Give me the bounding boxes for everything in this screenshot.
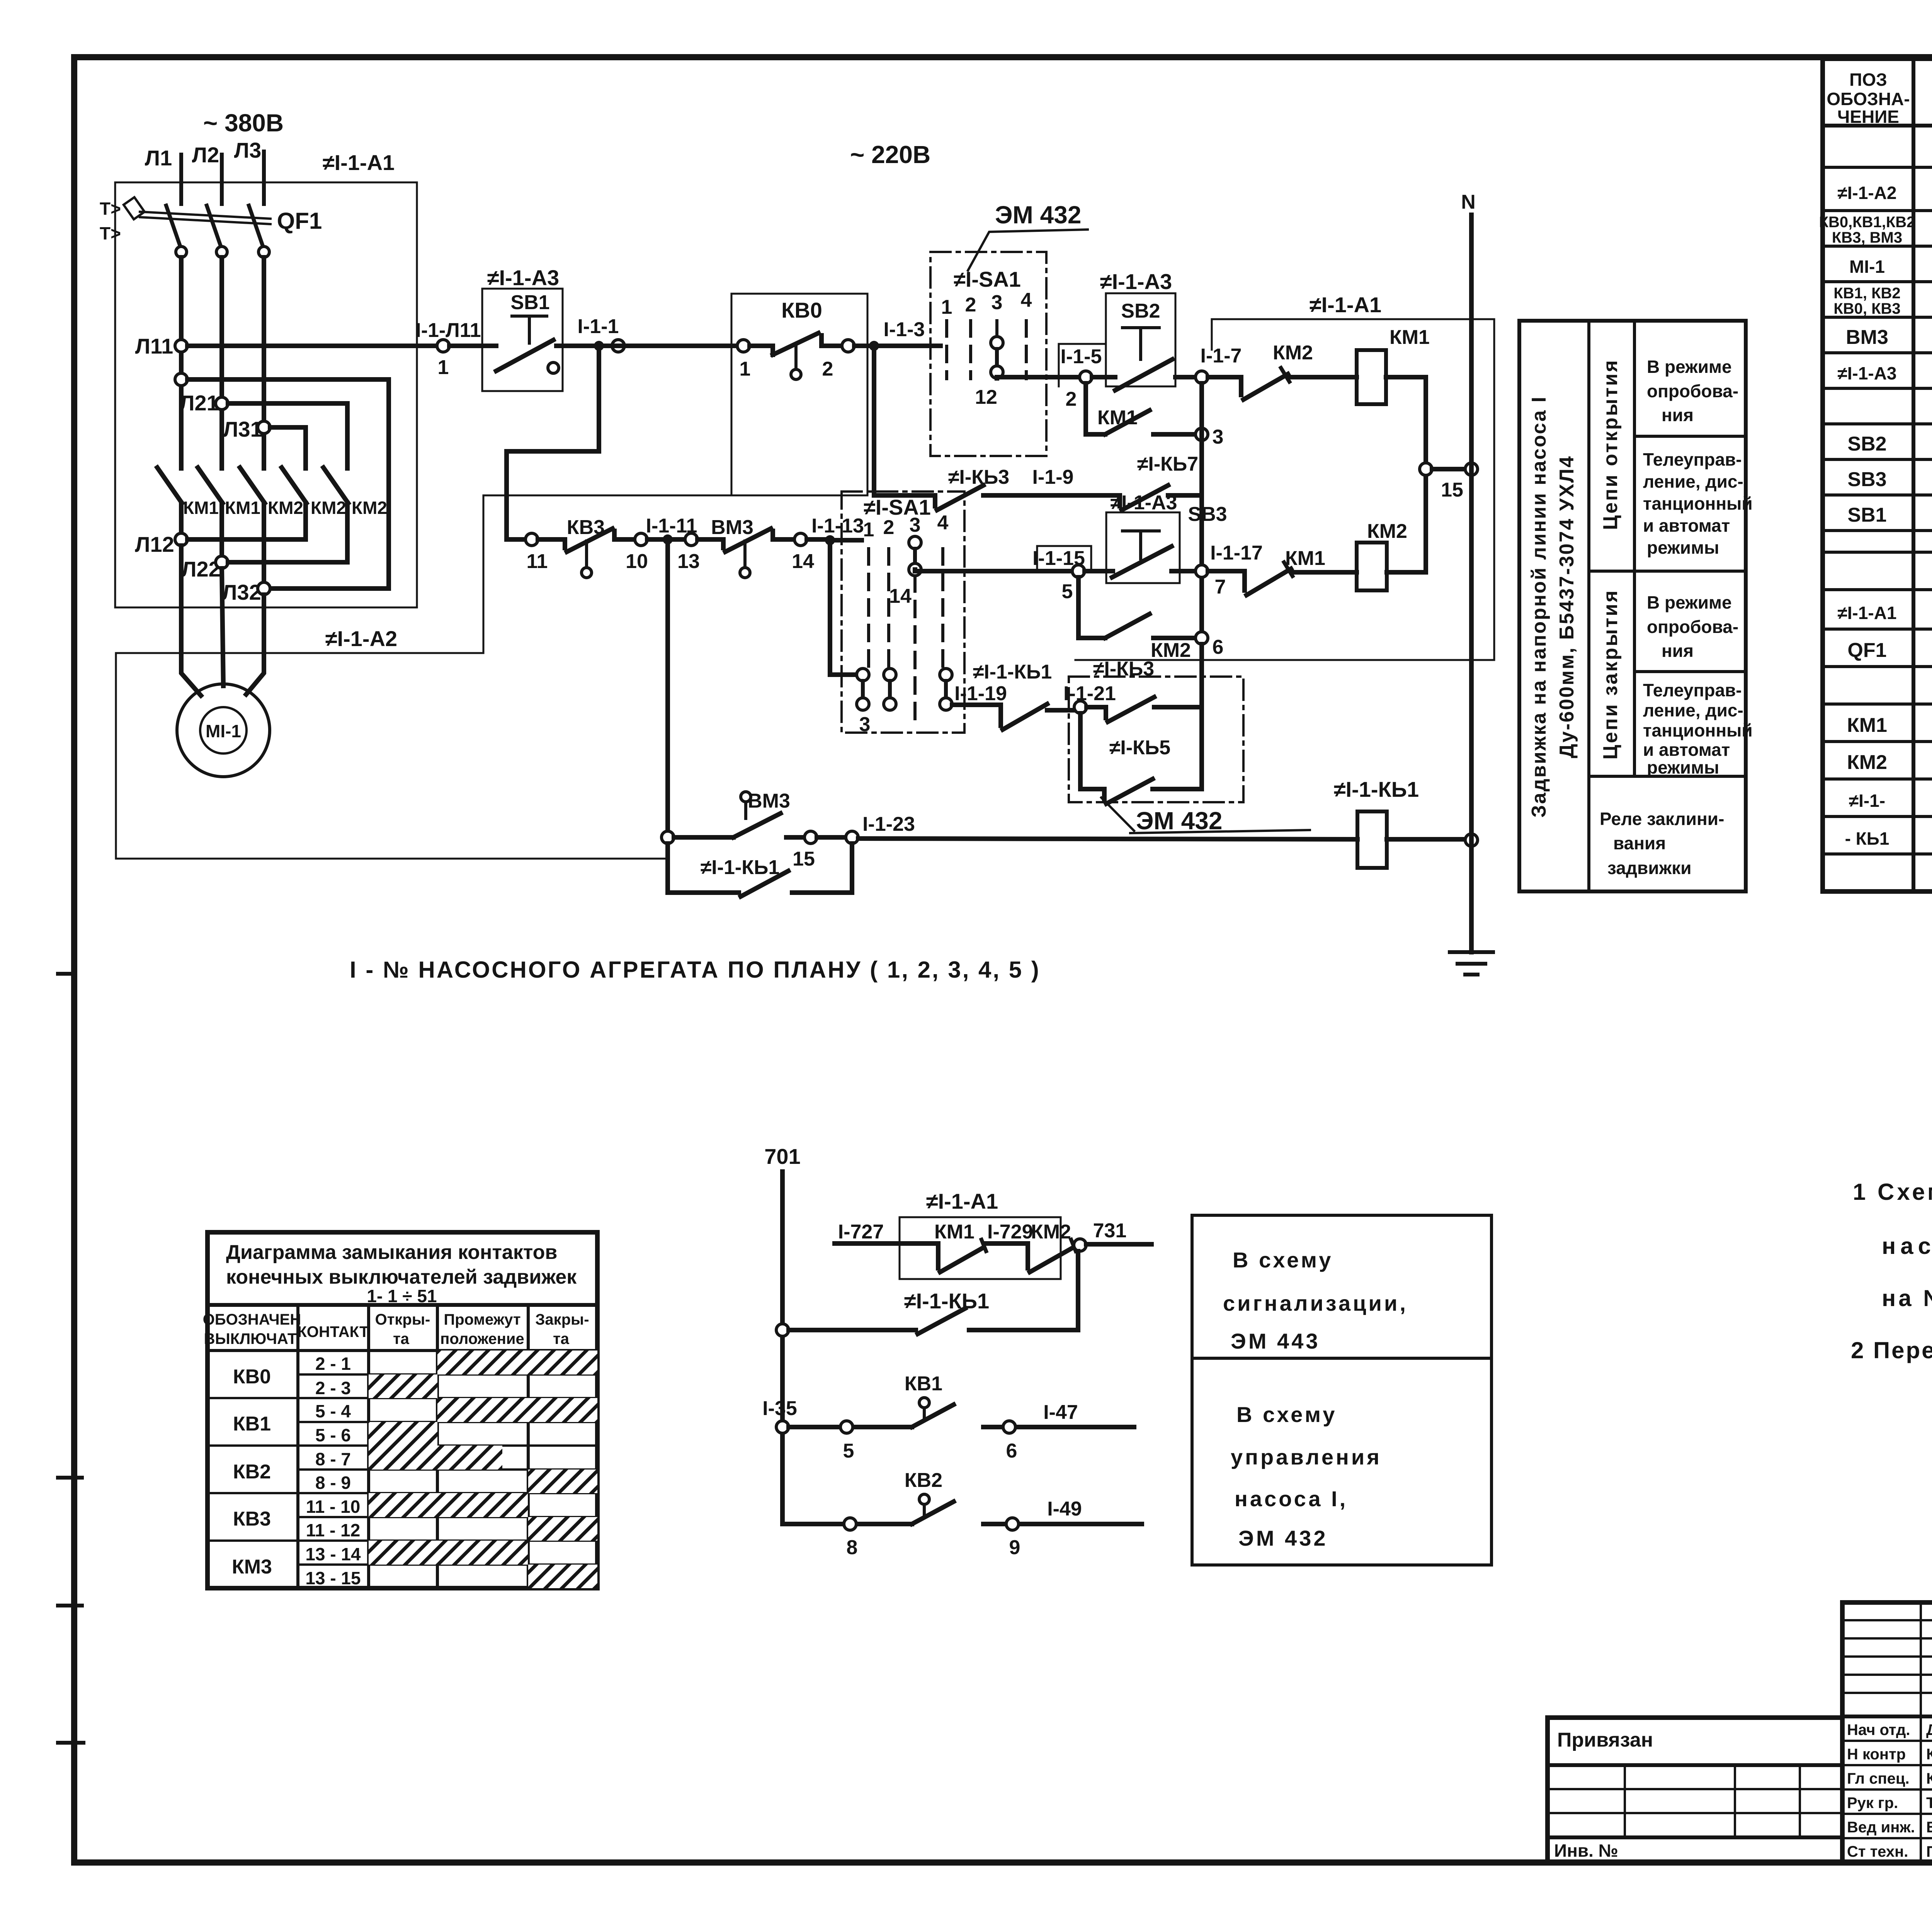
wire I-1-23 [858,839,1357,839]
wire branch down to KV3 row [507,346,599,539]
contact K47 row [1120,485,1202,510]
svg-text:КВ3: КВ3 [233,1508,271,1530]
svg-text:КМ1: КМ1 [934,1221,975,1243]
parts row tech description [1819,214,1932,246]
svg-text:5: 5 [843,1440,854,1462]
svg-text:КОНТАКТ: КОНТАКТ [297,1323,369,1340]
svg-text:Долотов: Долотов [1926,1721,1932,1738]
svg-text:I-727: I-727 [838,1221,884,1243]
contact KM2 aux NO [1105,614,1196,662]
svg-text:танционный: танционный [1643,720,1753,740]
svg-text:≠I-1-КЬ1: ≠I-1-КЬ1 [904,1289,989,1313]
svg-text:14: 14 [792,550,814,573]
jumper SA1 lower pos3 top [909,536,921,576]
wire SB2 to I-1-7 [1175,375,1196,379]
block box KV0 [731,294,867,495]
svg-text:≠I-1-А3: ≠I-1-А3 [1837,363,1896,383]
svg-text:I-1-7: I-1-7 [1201,345,1242,367]
svg-text:Инв. №: Инв. № [1554,1840,1618,1861]
svg-text:6: 6 [1006,1440,1017,1462]
svg-text:731: 731 [1093,1220,1127,1242]
coil KM1 [1357,326,1430,404]
svg-text:12: 12 [975,386,997,408]
svg-text:танционный: танционный [1643,493,1753,514]
svg-text:≠I-1-А2: ≠I-1-А2 [1837,183,1896,203]
parts row KM2 [1847,749,1932,774]
wire L21 to contact5 [228,403,347,468]
wire coil K41 to N [1387,837,1465,842]
svg-text:I - № НАСОСНОГО АГРЕГАТА: I - № НАСОСНОГО АГРЕГАТА ПО ПЛАНУ ( 1, 2… [350,957,1041,983]
wire row C start [915,570,1072,571]
wire row E start [952,703,1001,707]
svg-text:Полякова: Полякова [1926,1843,1932,1860]
svg-text:ВЫКЛЮЧАТ: ВЫКЛЮЧАТ [204,1330,297,1347]
svg-text:Л12: Л12 [135,532,174,556]
svg-text:Рук гр.: Рук гр. [1847,1795,1898,1812]
svg-text:ЭМ 432: ЭМ 432 [1238,1526,1328,1550]
svg-text:КВ3, ВМ3: КВ3, ВМ3 [1832,229,1902,246]
svg-text:КМ1: КМ1 [225,498,260,518]
svg-text:I-1-19: I-1-19 [954,682,1007,705]
diagram hatch row 8-9 [528,1470,597,1493]
svg-text:В режиме: В режиме [1647,592,1732,612]
svg-text:≠I-SA1: ≠I-SA1 [864,495,931,519]
diagram hatch row 13-14 [369,1541,528,1565]
svg-text:2: 2 [965,294,976,316]
svg-text:1: 1 [438,356,449,379]
parts row SB3 [1847,466,1932,491]
switch KV1 row [789,1398,1134,1427]
block box A1 power [115,182,417,607]
svg-text:13 - 15: 13 - 15 [305,1568,361,1588]
wire motor lead 2 [222,568,223,686]
node 11 [526,533,538,546]
svg-text:Кудряшов: Кудряшов [1926,1770,1932,1787]
node 8 [844,1518,856,1530]
svg-text:≠I-1-А3: ≠I-1-А3 [1100,269,1172,294]
contact K43 row E [1087,697,1202,722]
svg-text:QF1: QF1 [1847,639,1886,662]
contactor contact KM2 pole3 [240,468,303,518]
svg-text:ОБОЗНА-: ОБОЗНА- [1827,89,1910,109]
svg-text:Т>: Т> [100,223,121,243]
svg-text:701: 701 [764,1144,800,1169]
wire node3 column [1199,383,1204,638]
svg-text:3: 3 [992,291,1003,314]
sidebar cell test mode 2 [1647,592,1738,661]
label frame I-1-5 [1059,344,1106,386]
node 15 bypass [804,831,817,844]
parts row limit switches [1833,285,1932,317]
sidebar cell remote mode 2 [1643,680,1753,777]
svg-text:Л2: Л2 [192,143,219,167]
diagram table headers [203,1311,589,1347]
node on N [1465,834,1478,846]
node 1 terminal [437,340,449,352]
switch KV2 row [782,1494,1142,1524]
svg-text:КВ0: КВ0 [233,1366,271,1388]
svg-text:Ду-600мм, Б5437-3074 УХЛ4: Ду-600мм, Б5437-3074 УХЛ4 [1556,455,1578,758]
limit switch KV3 [538,529,635,578]
svg-text:В схему: В схему [1233,1248,1333,1272]
wire row A to SB1 [449,344,496,348]
switch VM3 [697,529,794,578]
contactor contact KM1 pole1 [157,468,219,518]
svg-text:8 - 7: 8 - 7 [315,1449,351,1469]
svg-text:Телеуправ-: Телеуправ- [1643,449,1742,469]
svg-text:I-47: I-47 [1043,1401,1078,1424]
svg-text:КВ2: КВ2 [905,1469,942,1492]
wire phase column 2 [219,257,224,468]
svg-text:≠I-1-КЬ1: ≠I-1-КЬ1 [701,856,780,879]
svg-text:на № соответствующего насос: на № соответствующего насоса ( 1, 2, 3, … [1882,1285,1932,1311]
parts row KM1 [1847,712,1932,737]
svg-text:КМ2: КМ2 [352,498,387,518]
motor M I-1 [177,684,270,777]
wire L2 input stub [220,155,224,204]
svg-text:Цепи открытия: Цепи открытия [1599,359,1622,530]
sidebar cell test mode 1 [1647,357,1738,425]
sidebar table grid [1519,321,1746,891]
svg-text:5 - 6: 5 - 6 [315,1425,351,1445]
node I-35 [776,1421,789,1433]
node 2 [1080,371,1092,383]
svg-text:положение: положение [440,1330,524,1347]
svg-text:2: 2 [1066,388,1077,410]
svg-text:I-1-23: I-1-23 [862,813,915,835]
svg-text:≠I-1-А1: ≠I-1-А1 [926,1189,998,1213]
svg-text:КМ1: КМ1 [1847,714,1887,737]
svg-text:Задвижка на напорной линии нас: Задвижка на напорной линии насоса I [1528,396,1550,818]
svg-text:8 - 9: 8 - 9 [315,1473,351,1493]
parts row relay [1849,787,1932,811]
svg-text:Л21: Л21 [179,391,219,415]
contact KM2 bottom [1028,1221,1076,1272]
svg-text:I-1-Л11: I-1-Л11 [415,319,481,342]
parts row control post [1837,360,1932,384]
block outline A2 [116,495,731,859]
svg-text:Диаграмма замыкания контакто: Диаграмма замыкания контактов [226,1241,557,1264]
svg-text:2 Перечень элементов выполн: 2 Перечень элементов выполнен на одну за… [1851,1337,1932,1363]
svg-text:та: та [393,1330,410,1347]
svg-text:опробова-: опробова- [1647,381,1738,401]
svg-text:5: 5 [1062,580,1073,603]
svg-text:≠I-1-А3: ≠I-1-А3 [487,265,559,290]
svg-text:КВ1: КВ1 [233,1413,271,1435]
svg-text:ление, дис-: ление, дис- [1643,700,1743,720]
wire elbow to SA1 lower [830,540,857,675]
svg-text:I-729: I-729 [987,1221,1033,1243]
svg-text:вания: вания [1613,833,1666,853]
block outline A1 control [1075,319,1494,660]
svg-text:≠I-КЬ5: ≠I-КЬ5 [1109,737,1170,759]
contact KL1 row E [1001,704,1074,730]
diagram hatch row 2-1 [437,1351,597,1374]
svg-text:11 - 12: 11 - 12 [306,1520,361,1540]
svg-text:I-1-17: I-1-17 [1210,542,1263,564]
svg-text:≠I-SA1: ≠I-SA1 [954,267,1021,291]
svg-text:SB1: SB1 [1847,504,1886,526]
wire node14 to I-1-13 [807,537,830,542]
svg-text:I-1-5: I-1-5 [1061,345,1102,368]
wire phase1 bypass [187,379,389,589]
diagram table grid [207,1232,597,1588]
svg-text:- КЬ1: - КЬ1 [1845,828,1889,849]
svg-text:и автомат: и автомат [1643,515,1730,536]
svg-text:Ст техн.: Ст техн. [1847,1843,1908,1860]
diagram hatch row 5-6 [369,1422,437,1446]
label frame I-1-15 [1037,546,1091,571]
node 6 bottom [1003,1421,1015,1433]
svg-text:2 - 3: 2 - 3 [315,1378,351,1398]
svg-text:≠I-КЬ3: ≠I-КЬ3 [948,466,1009,488]
wire KM1 coil return [1386,377,1426,463]
circuit breaker QF1 [100,197,322,257]
wire phase column 1 [179,257,184,468]
pushbutton SB3 [1085,512,1200,583]
svg-text:1 Схема выполнена для напо: 1 Схема выполнена для напорных задвижек [1853,1179,1932,1205]
sidebar rotated title valve [1528,396,1578,818]
svg-text:≠I-1-А1: ≠I-1-А1 [1837,603,1896,623]
svg-text:Кудряшов: Кудряшов [1926,1746,1932,1763]
contact K41 bypass loop [668,844,852,896]
wire row A SB1 to KB0 [563,344,737,348]
pin circle VM3 bypass [741,792,751,818]
svg-text:КМ1: КМ1 [1389,326,1430,349]
parts row SB2 [1847,431,1932,455]
svg-text:1: 1 [863,519,874,541]
svg-text:1: 1 [740,358,751,380]
svg-text:~ 380В: ~ 380В [203,109,284,137]
ground [1450,952,1493,975]
svg-text:В схему: В схему [1236,1402,1337,1427]
svg-text:Закры-: Закры- [535,1311,589,1328]
svg-text:SB2: SB2 [1847,433,1886,455]
wire KM1 aux branch [1086,383,1105,434]
node 14 [794,533,807,546]
svg-text:режимы: режимы [1647,757,1719,777]
svg-text:15: 15 [1441,479,1463,501]
svg-text:~ 220В: ~ 220В [850,141,930,168]
wire 731 out [1086,1242,1151,1247]
svg-text:SB3: SB3 [1847,468,1886,491]
selector switch SA1 lower block [842,492,964,733]
svg-text:4: 4 [1021,289,1032,311]
svg-text:SB1: SB1 [510,291,549,314]
svg-text:опробова-: опробова- [1647,617,1738,637]
node branch to KV3 row [594,341,604,351]
svg-text:≠I-1-КЬ1: ≠I-1-КЬ1 [973,661,1052,683]
svg-text:≠I-КЬ7: ≠I-КЬ7 [1137,453,1198,475]
diagram hatch row 8-7 [369,1446,502,1470]
svg-text:≠I-1-А3: ≠I-1-А3 [1110,492,1177,514]
wire contact4 bottom [303,503,308,539]
svg-text:КМ2: КМ2 [1367,520,1407,543]
limit switch KV0 contact [737,333,854,380]
node tap phase1 [175,373,187,386]
wire node6 to row E [1199,644,1204,789]
title block signatures [1847,1721,1932,1860]
node 13 [685,533,697,546]
svg-text:N: N [1461,191,1476,213]
svg-text:I-1-21: I-1-21 [1063,682,1116,705]
parts row A2 drive [1837,180,1932,205]
svg-text:13 - 14: 13 - 14 [305,1544,361,1564]
svg-text:ЧЕНИЕ: ЧЕНИЕ [1837,107,1899,127]
diagram table title [226,1241,577,1306]
svg-text:7: 7 [1215,576,1226,598]
svg-text:и автомат: и автомат [1643,740,1730,760]
diagram hatch row 11-12 [528,1517,597,1541]
svg-text:ВМ3: ВМ3 [748,790,790,812]
svg-text:ВМ3: ВМ3 [711,516,753,539]
svg-text:I-1-9: I-1-9 [1032,466,1074,488]
parts row clutch switch [1846,324,1932,349]
svg-text:1- 1 ÷ 51: 1- 1 ÷ 51 [367,1286,437,1306]
svg-text:ния: ния [1662,405,1694,425]
jumper SA1 lower pos2 [884,668,896,710]
parts table header [1827,70,1932,127]
svg-text:Цепи закрытия: Цепи закрытия [1599,589,1622,759]
svg-text:QF1: QF1 [277,208,322,234]
svg-text:ление, дис-: ление, дис- [1643,471,1743,492]
diagram hatch row 2-3 [369,1374,437,1398]
svg-text:КВ1: КВ1 [905,1373,942,1395]
wire drop from I-1-3 [874,346,935,495]
svg-text:3: 3 [1213,426,1224,448]
sidebar cell remote mode 1 [1643,449,1753,558]
svg-text:I-35: I-35 [762,1397,797,1420]
label EM 432 lower with leader [1101,798,1310,835]
contact KM1 bottom [934,1221,986,1272]
svg-text:ЭМ 443: ЭМ 443 [1231,1329,1320,1353]
svg-text:КМ2: КМ2 [1151,639,1191,662]
contact K41 bottom row [789,1251,1078,1334]
svg-text:КМ1: КМ1 [1285,547,1325,570]
svg-text:8: 8 [847,1536,858,1559]
block box A1 bottom [900,1217,1061,1279]
svg-text:Реле заклини-: Реле заклини- [1600,809,1724,829]
node I-1-13 [825,535,835,545]
svg-text:Гл спец.: Гл спец. [1847,1770,1910,1787]
svg-text:≠I-1-А1: ≠I-1-А1 [1310,293,1381,317]
wire L22 row [228,560,347,565]
wire KM2 aux branch [1078,577,1105,638]
block outline EM432 lower [1069,677,1243,802]
svg-text:≠I-1-А1: ≠I-1-А1 [323,150,395,175]
diagram hatch row 5-4 [437,1398,597,1422]
svg-text:КМ2: КМ2 [268,498,303,518]
svg-text:ОБОЗНАЧЕН: ОБОЗНАЧЕН [203,1311,301,1328]
node junction 13 drop [663,534,673,544]
node 5 bottom [840,1421,853,1433]
wire motor lead 1 [181,546,201,696]
wire I-727 [835,1241,938,1246]
svg-text:режимы: режимы [1647,538,1719,558]
parts row relay cont [1845,825,1932,849]
svg-text:насосов 1÷5, где индекс „ I: насосов 1÷5, где индекс „ I" заменяется [1882,1233,1932,1259]
diagram hatch row 11-10 [369,1493,528,1517]
svg-text:SB2: SB2 [1121,300,1160,322]
svg-text:задвижки: задвижки [1607,858,1692,878]
wire N bus [1461,191,1476,952]
diagram hatch row 13-15 [528,1565,597,1588]
svg-text:КМ3: КМ3 [232,1556,272,1578]
contactor contact KM1 pole2 [198,468,260,518]
parts row breaker QF1 [1847,637,1932,662]
node 9 [1006,1518,1019,1530]
label EM 432 upper with leader [968,201,1088,270]
svg-text:6: 6 [1213,636,1224,658]
switch VM3 bypass contact [674,813,804,837]
wire 701 bus [780,1172,785,1524]
title block left extension [1548,1718,1842,1863]
wire L11 bus [187,344,479,348]
svg-text:КВ1, КВ2: КВ1, КВ2 [1833,285,1900,302]
node 6 [1196,632,1208,644]
svg-text:та: та [553,1330,570,1347]
contact KM1 NC row C [1208,547,1357,595]
svg-text:SB3: SB3 [1188,503,1227,526]
svg-text:13: 13 [677,550,700,573]
wire elbow to node 11 [507,537,526,542]
svg-text:Л1: Л1 [145,146,172,170]
svg-text:I-1-13: I-1-13 [811,515,864,537]
svg-text:КВ0, КВ3: КВ0, КВ3 [1833,300,1900,317]
svg-text:Вед инж.: Вед инж. [1847,1819,1915,1836]
node junction 701 row [776,1324,789,1336]
svg-text:Телеуправ-: Телеуправ- [1643,680,1742,700]
svg-text:Л11: Л11 [135,334,173,358]
svg-text:Нач отд.: Нач отд. [1847,1721,1910,1738]
wire KB0 to node I-1-3 [854,344,940,348]
wire row D tail [830,538,862,543]
svg-text:Н контр: Н контр [1847,1746,1906,1763]
coil KM2 [1357,520,1407,590]
svg-text:Л3: Л3 [234,138,261,162]
wire L31 to contact4 [270,427,306,468]
wire mid [986,1241,1028,1246]
svg-text:В режиме: В режиме [1647,357,1732,377]
parts row motor [1849,253,1932,277]
svg-text:ВМ3: ВМ3 [1846,326,1888,349]
svg-text:Т>: Т> [100,199,121,219]
svg-text:Барбашинов: Барбашинов [1926,1819,1932,1836]
title block grid [1842,1602,1932,1863]
contact K45 bypass [1104,779,1202,804]
wire drop 13 to bypass row [665,539,670,837]
diagram contact labels [305,1354,361,1588]
node 5 [1072,565,1085,577]
diagram switch labels [232,1366,272,1578]
svg-text:3: 3 [859,713,871,736]
wire L3 input stub [262,151,266,204]
svg-text:КМ2: КМ2 [1847,751,1887,774]
wire contact5 bottom [345,503,350,562]
wire contact1 bottom [179,503,184,539]
parts row SB1 [1847,502,1932,526]
wire row B start [997,377,1080,378]
node 731 [1074,1239,1086,1251]
wire node10 to node13 [647,537,685,542]
svg-text:3: 3 [910,514,921,536]
jumper SA1 lower pos1 [857,668,870,736]
parts table grid [1823,59,1932,891]
wire KM2 coil return [1387,475,1426,572]
coil K41 [1357,811,1387,868]
pushbutton SB2 [1092,293,1175,390]
svg-text:≠I-1-: ≠I-1- [1849,791,1885,811]
